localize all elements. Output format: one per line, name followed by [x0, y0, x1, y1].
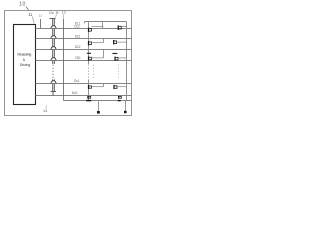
svg-text:10: 10 — [19, 2, 25, 8]
svg-text:12a: 12a — [49, 11, 54, 15]
svg-text:12: 12 — [39, 14, 43, 18]
svg-text:12b: 12b — [55, 11, 59, 15]
svg-text:14: 14 — [43, 109, 47, 113]
svg-text:D2.1: D2.1 — [75, 34, 81, 38]
svg-text:D3.1: D3.1 — [75, 56, 81, 60]
svg-text:D1.2: D1.2 — [74, 25, 80, 29]
svg-text:D2.2: D2.2 — [75, 45, 81, 49]
svg-text:Dn.1: Dn.1 — [74, 79, 80, 83]
svg-text:Driving: Driving — [20, 63, 30, 67]
svg-text:13: 13 — [62, 11, 66, 15]
svg-text:Dn.2: Dn.2 — [72, 91, 78, 95]
svg-text:Measuring: Measuring — [17, 53, 31, 57]
svg-text:11: 11 — [28, 12, 33, 17]
